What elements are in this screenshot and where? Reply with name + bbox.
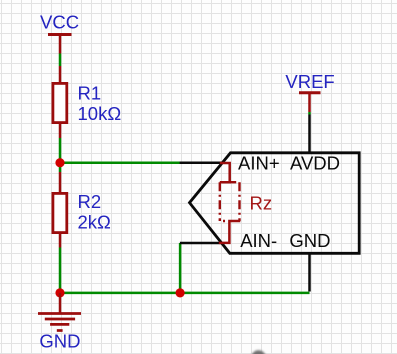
resistor Rz dashed optional box: [219, 163, 272, 243]
pin AVDD: [308, 115, 311, 154]
pin AIN+: [180, 161, 223, 164]
svg-text:R2: R2: [78, 191, 102, 212]
pin AIN-: [180, 242, 222, 245]
svg-text:10kΩ: 10kΩ: [78, 103, 122, 124]
resistor R2 2k: [53, 172, 111, 248]
wire VCC to R1: [59, 54, 62, 67]
svg-text:2kΩ: 2kΩ: [78, 211, 112, 232]
svg-text:R1: R1: [78, 83, 102, 104]
ground symbol: [38, 293, 81, 352]
svg-text:AIN-: AIN-: [240, 230, 277, 251]
resistor R1 10k: [53, 66, 121, 138]
cursor gray dot: [251, 350, 265, 354]
svg-text:Rz: Rz: [250, 192, 273, 213]
wire node A to R2: [59, 163, 62, 172]
svg-text:GND: GND: [289, 230, 330, 251]
wire VREF to AVDD: [308, 112, 311, 115]
junction node C: [176, 288, 185, 297]
svg-text:VREF: VREF: [285, 71, 334, 92]
wire bottom rail: [60, 292, 310, 295]
junction node A: [55, 158, 64, 167]
power port VREF: [285, 71, 334, 112]
op-amp / ADC box U1: [190, 153, 360, 254]
svg-text:VCC: VCC: [40, 12, 79, 33]
svg-text:AVDD: AVDD: [290, 153, 340, 174]
junction node B: [55, 288, 64, 297]
wire R1 to node A: [59, 138, 62, 163]
pin GND: [308, 253, 311, 292]
wire AIN- drop: [179, 243, 182, 293]
wire node A to AIN+: [60, 161, 180, 164]
wire R2 to node B: [59, 248, 62, 293]
svg-text:AIN+: AIN+: [238, 153, 280, 174]
svg-text:GND: GND: [39, 331, 80, 352]
power port VCC: [40, 12, 79, 54]
